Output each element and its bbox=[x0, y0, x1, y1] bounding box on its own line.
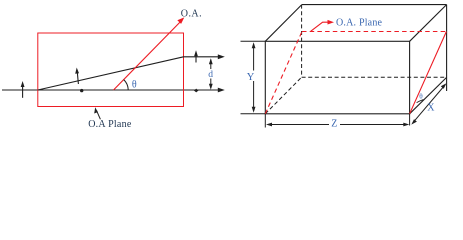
svg-text:O.A.: O.A. bbox=[181, 8, 202, 19]
box top-right oblique edge bbox=[410, 5, 447, 42]
polarization arrow on exit ray bbox=[194, 50, 198, 62]
svg-text:O.A Plane: O.A Plane bbox=[88, 119, 132, 130]
svg-text:X: X bbox=[427, 102, 435, 113]
extraordinary exit ray (upper horizontal) bbox=[184, 54, 225, 59]
polarization arrow on extraordinary ray bbox=[75, 68, 79, 85]
box back-bottom edge (hidden, dashed) bbox=[302, 76, 447, 78]
small angle arc at bottom-right corner bbox=[417, 100, 424, 103]
Z extension line right bbox=[409, 114, 411, 126]
box back-top edge bbox=[302, 4, 447, 6]
box front face bbox=[265, 41, 409, 114]
extraordinary ray (diagonal inside crystal) bbox=[38, 57, 184, 90]
box bottom-right oblique edge bbox=[410, 77, 447, 113]
svg-text:Z: Z bbox=[331, 119, 337, 130]
svg-text:d: d bbox=[208, 70, 213, 80]
dimension d double arrow bbox=[209, 58, 213, 90]
Z dimension double arrow bbox=[266, 123, 409, 127]
svg-text:θ: θ bbox=[132, 79, 137, 90]
red elbow arrow to O.A. Plane label bbox=[311, 20, 334, 31]
box back-left vertical edge (hidden, dashed) bbox=[301, 5, 303, 78]
crystal rectangle (red) bbox=[38, 33, 184, 107]
Z extension line left bbox=[264, 114, 266, 128]
O.A. plane top edge (red, dashed) bbox=[302, 31, 446, 33]
polarization dot on exit ordinary ray bbox=[194, 89, 199, 93]
pointer arrow to O.A plane bbox=[94, 107, 100, 119]
svg-text:θ: θ bbox=[419, 92, 423, 100]
box top-left oblique edge bbox=[265, 5, 302, 42]
incident ray / ordinary ray (horizontal line) bbox=[2, 88, 225, 93]
polarization arrow on incident ray bbox=[21, 81, 25, 98]
Y dimension top tick bbox=[241, 40, 266, 42]
angle arc theta bbox=[124, 80, 129, 90]
Y dimension double arrow bbox=[252, 42, 256, 113]
svg-text:Y: Y bbox=[247, 72, 255, 83]
box back-right vertical edge bbox=[446, 5, 448, 91]
O.A. plane left edge (red, dashed) bbox=[265, 32, 302, 114]
polarization dot on ordinary ray inside crystal bbox=[80, 89, 83, 92]
X dimension double arrow bbox=[411, 83, 446, 124]
box bottom-left oblique edge (hidden, dashed) bbox=[265, 77, 301, 114]
optic axis line O.A. (red) bbox=[114, 17, 185, 90]
svg-text:O.A. Plane: O.A. Plane bbox=[336, 17, 383, 28]
Y dimension bottom tick bbox=[241, 113, 266, 115]
O.A. plane right edge (red, solid) bbox=[410, 32, 447, 114]
